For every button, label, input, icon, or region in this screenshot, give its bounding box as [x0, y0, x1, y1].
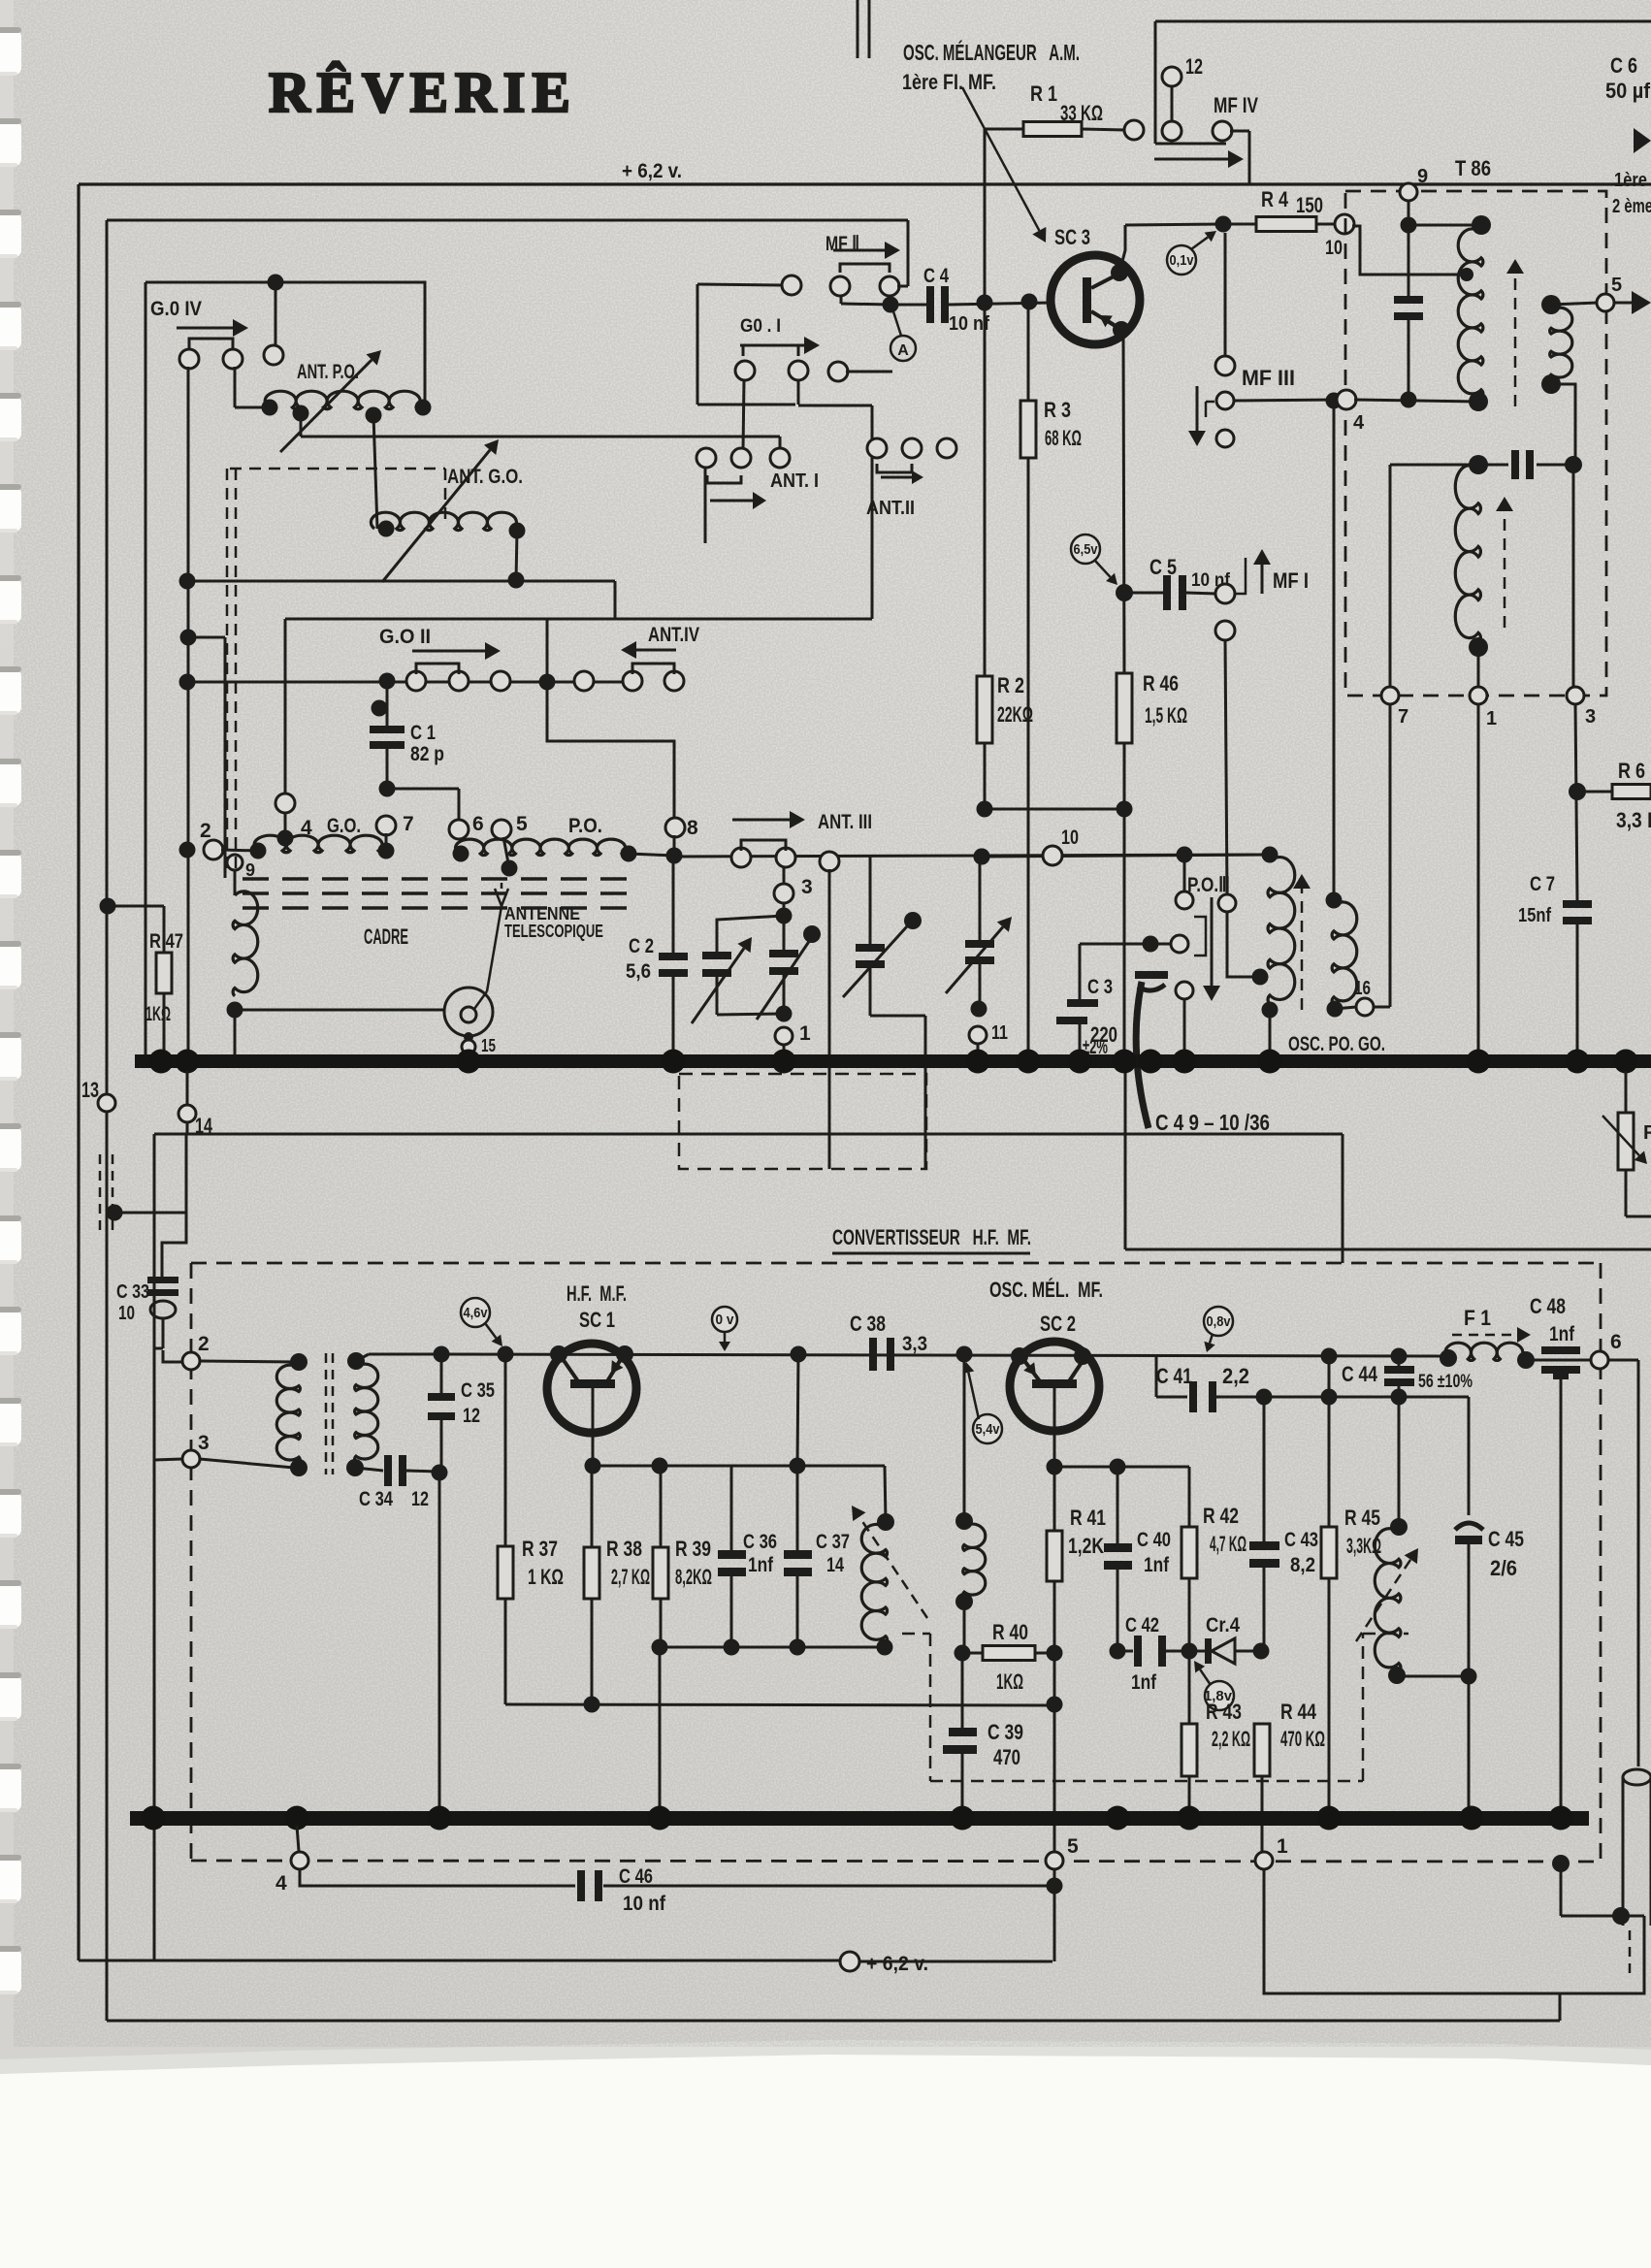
svg-text:7: 7	[403, 813, 414, 835]
wire bottom inner frame	[107, 2020, 1560, 2023]
svg-text:C 4: C 4	[923, 265, 949, 287]
svg-text:R 38: R 38	[606, 1537, 642, 1561]
bracket y883	[741, 840, 786, 851]
dashed gang box below bus	[679, 1074, 926, 1169]
node 6	[1591, 1351, 1608, 1369]
arrow MF III down	[1196, 386, 1199, 431]
svg-text:5: 5	[1067, 1835, 1079, 1858]
arrow ANT IV	[636, 649, 676, 652]
svg-text:R 44: R 44	[1280, 1700, 1317, 1724]
svg-text:C 5: C 5	[1149, 555, 1177, 579]
switch MF IV	[1213, 121, 1232, 141]
capacitor C39	[961, 1653, 964, 1728]
variable capacitor CV2	[783, 916, 786, 950]
svg-text:3,3: 3,3	[902, 1333, 927, 1355]
wire C49 output	[1124, 1071, 1127, 1249]
node +6,2v bottom	[840, 1952, 859, 1971]
svg-text:R 4: R 4	[1261, 187, 1289, 211]
coil OSC PO	[1262, 847, 1279, 863]
svg-text:A: A	[897, 342, 909, 359]
svg-text:TELESCOPIQUE: TELESCOPIQUE	[504, 922, 603, 941]
svg-text:1 KΩ: 1 KΩ	[528, 1565, 564, 1589]
svg-text:1: 1	[799, 1022, 811, 1045]
node pin1 T86	[1470, 687, 1487, 704]
wire SC2 emitter row	[1047, 1459, 1063, 1475]
svg-text:C 41: C 41	[1156, 1364, 1192, 1388]
resistor R6	[1569, 783, 1586, 800]
resistor R42	[1182, 1527, 1197, 1578]
coil F1	[1440, 1349, 1457, 1367]
wire pin3 column	[1572, 465, 1575, 687]
node 9 T86	[1400, 183, 1417, 201]
wire to pin6	[387, 788, 459, 791]
svg-text:RÊVERIE: RÊVERIE	[269, 60, 577, 124]
wire osc coil riser	[1333, 401, 1336, 900]
coil SC1 tank	[877, 1513, 894, 1531]
capacitor C1	[372, 700, 388, 717]
svg-text:6: 6	[1610, 1331, 1622, 1353]
node pin3 T86	[1567, 687, 1584, 704]
node pin6	[449, 820, 469, 839]
dashed arrow osc	[1301, 889, 1304, 1010]
switch ANT IV contacts	[623, 671, 642, 691]
svg-text:2/6: 2/6	[1490, 1556, 1517, 1580]
wire secondary to C	[1551, 384, 1575, 465]
svg-text:ANT. P.O.: ANT. P.O.	[297, 361, 359, 383]
node 11	[969, 1026, 987, 1044]
capacitor C34	[355, 1468, 383, 1471]
wire tap1 drop	[300, 413, 303, 437]
resistor R47	[100, 898, 116, 915]
wire MF III to T86 pin4	[1234, 400, 1339, 401]
node 15	[464, 1032, 473, 1042]
node SC3 emitter	[1113, 321, 1130, 339]
svg-text:3: 3	[1585, 706, 1596, 728]
wire jog to pin8	[547, 682, 674, 820]
coil P.O. cadre	[455, 839, 629, 855]
svg-text:C 38: C 38	[850, 1312, 886, 1336]
switch GO IV bracket	[189, 339, 233, 349]
resistor R40	[955, 1645, 971, 1662]
svg-text:C 36: C 36	[743, 1531, 777, 1553]
node osc tap	[1252, 969, 1269, 986]
variable capacitor CV1	[717, 916, 784, 952]
node ANT.PO taps	[293, 405, 309, 422]
wire pin1 bottom loop	[1264, 1869, 1644, 1993]
resistor R2	[984, 303, 987, 676]
node C1 junction	[379, 673, 396, 690]
svg-text:1nf: 1nf	[748, 1554, 774, 1576]
wire pin1 to bus	[1477, 703, 1480, 1057]
wire left riser x159	[153, 1134, 156, 1960]
switch MF I	[1215, 584, 1235, 603]
bracket ANT II	[877, 464, 912, 472]
wire inner frame	[107, 219, 908, 222]
arrow MF IV	[1154, 158, 1228, 161]
svg-text:SC 2: SC 2	[1040, 1312, 1076, 1336]
coil T86 secondary	[1541, 295, 1561, 314]
svg-text:14: 14	[195, 1114, 213, 1138]
svg-text:R 2: R 2	[997, 673, 1024, 697]
switch GO IV contacts	[179, 349, 199, 369]
svg-text:R 41: R 41	[1070, 1506, 1106, 1530]
svg-text:0,1v: 0,1v	[1170, 252, 1195, 269]
transistor SC3	[1051, 255, 1140, 344]
svg-text:R: R	[1643, 1122, 1651, 1144]
wire PO to pin8 node	[629, 854, 674, 856]
svg-text:C 34: C 34	[359, 1488, 393, 1510]
switch ANT II contacts	[867, 438, 887, 458]
wire GO IV contact to coil	[234, 367, 237, 407]
node pin4 bottom	[297, 1826, 299, 1851]
svg-text:ANT.IV: ANT.IV	[648, 624, 699, 646]
inner dashed box osc	[929, 1634, 932, 1781]
resistor R44	[1254, 1724, 1270, 1776]
coil OSC GO	[1326, 892, 1343, 909]
switch GO II bracket	[416, 664, 459, 674]
svg-text:6,5v: 6,5v	[1074, 541, 1099, 558]
svg-text:10: 10	[1325, 237, 1343, 259]
wire y638	[285, 618, 872, 621]
transformer input primary	[290, 1353, 308, 1371]
svg-text:C 40: C 40	[1137, 1529, 1171, 1551]
electrolytic cylinder	[1623, 1777, 1651, 1926]
switch MF III	[1216, 392, 1234, 409]
arrow MF I up	[1261, 565, 1264, 594]
dashed cadre core	[243, 877, 640, 880]
svg-text:C 44: C 44	[1342, 1362, 1378, 1386]
wire x232 drop	[224, 637, 227, 878]
svg-text:470: 470	[993, 1745, 1020, 1769]
svg-text:G0 . I: G0 . I	[740, 316, 781, 337]
svg-text:OSC. PO. GO.: OSC. PO. GO.	[1288, 1033, 1385, 1055]
ground bus 2	[130, 1811, 1589, 1826]
dashed arrow tank	[859, 1517, 927, 1618]
svg-text:R 37: R 37	[522, 1537, 558, 1561]
arrow GO II	[412, 650, 485, 653]
svg-text:82 p: 82 p	[410, 743, 444, 765]
svg-text:MF III: MF III	[1242, 366, 1295, 390]
svg-text:12: 12	[411, 1488, 429, 1510]
svg-text:ANT. I: ANT. I	[770, 470, 819, 492]
wire +6.2v top rail	[79, 182, 1651, 185]
svg-text:2,2 KΩ: 2,2 KΩ	[1212, 1727, 1250, 1751]
wire R37 R38 bottom	[505, 1704, 1052, 1705]
coil T86 third	[1455, 466, 1480, 643]
svg-text:C 1: C 1	[410, 722, 436, 744]
node 12	[1162, 67, 1182, 86]
switch MF II	[840, 264, 890, 273]
node R4 left	[1215, 216, 1232, 233]
wire C37 feed from A	[791, 1346, 807, 1363]
svg-text:+ 6,2 v.: + 6,2 v.	[622, 160, 682, 182]
node pin3 gang	[774, 884, 793, 903]
svg-text:4,7 KΩ: 4,7 KΩ	[1210, 1532, 1246, 1556]
wire pin4 row	[1337, 390, 1356, 409]
svg-text:8,2KΩ: 8,2KΩ	[675, 1565, 712, 1589]
wire SC3 to R4 node	[1119, 225, 1125, 273]
node pin7	[1381, 687, 1399, 704]
svg-text:+ 6,2 v.: + 6,2 v.	[866, 1953, 928, 1975]
svg-text:1nf: 1nf	[1131, 1671, 1157, 1694]
potentiometer right	[1625, 1071, 1628, 1113]
svg-text:R 39: R 39	[675, 1537, 711, 1561]
svg-text:C 4 9 – 10 /36: C 4 9 – 10 /36	[1155, 1110, 1270, 1135]
node pin2 conv	[163, 1350, 182, 1362]
svg-text:CONVERTISSEUR H.F. MF.: CONVERTISSEUR H.F. MF.	[832, 1225, 1031, 1249]
coil ANT.PO	[265, 391, 424, 409]
svg-text:1ère: 1ère	[1614, 170, 1647, 191]
switch contacts y883	[731, 848, 751, 867]
svg-text:10: 10	[1061, 826, 1079, 849]
svg-text:0,8v: 0,8v	[1207, 1313, 1232, 1330]
svg-text:MF Ⅱ: MF Ⅱ	[825, 233, 859, 255]
svg-text:5,6: 5,6	[626, 960, 651, 983]
wire GO IV column	[187, 367, 190, 1057]
dashed box convertisseur	[191, 1262, 1601, 1265]
bracket ANT I	[707, 475, 741, 483]
svg-text:3,3 K: 3,3 K	[1616, 808, 1651, 832]
svg-text:6: 6	[472, 813, 484, 835]
node A	[890, 336, 916, 361]
variable capacitor CV4	[974, 849, 990, 865]
svg-text:2: 2	[198, 1333, 210, 1355]
svg-text:2,7 KΩ: 2,7 KΩ	[611, 1565, 650, 1589]
svg-text:470 KΩ: 470 KΩ	[1280, 1727, 1325, 1751]
wire tap link y450	[301, 436, 780, 438]
wire SC3 emitter column	[1123, 330, 1124, 673]
capacitor C43	[1263, 1397, 1266, 1541]
svg-text:1,5 KΩ: 1,5 KΩ	[1145, 703, 1187, 728]
svg-text:C 3: C 3	[1087, 976, 1113, 998]
svg-text:R 1: R 1	[1030, 81, 1057, 106]
wire SC1 emitter row	[585, 1458, 601, 1474]
svg-text:8: 8	[687, 817, 698, 839]
node C34-C35	[432, 1465, 448, 1481]
node SC2 base feed	[956, 1346, 973, 1363]
wire R1 column	[984, 129, 987, 303]
svg-text:C 45: C 45	[1488, 1527, 1524, 1551]
coil cadre link	[233, 891, 258, 996]
resistor R46	[1117, 673, 1132, 743]
svg-text:150: 150	[1296, 193, 1323, 217]
dashed arrow third	[1504, 511, 1506, 628]
arrow through ANT.GO	[382, 450, 490, 582]
svg-text:10: 10	[118, 1303, 135, 1324]
wire drop to pin4 node	[284, 619, 287, 794]
label 5,4v	[973, 1414, 1002, 1443]
capacitor C35	[440, 1354, 443, 1393]
svg-text:22KΩ: 22KΩ	[997, 702, 1033, 727]
wire page-cut stubs	[857, 0, 859, 58]
switch GO II contacts	[406, 671, 426, 691]
svg-text:SC 1: SC 1	[579, 1308, 615, 1332]
svg-text:1: 1	[1277, 1835, 1288, 1858]
switch ANT IV bracket	[632, 664, 674, 674]
svg-text:68 KΩ: 68 KΩ	[1045, 426, 1082, 450]
wire to pin7	[1390, 464, 1478, 467]
svg-text:5,4v: 5,4v	[976, 1421, 1001, 1438]
coil G.O. cadre	[254, 835, 386, 853]
arrow PO III down	[1211, 897, 1214, 986]
node 14	[186, 1071, 189, 1105]
switch PO III	[1183, 855, 1186, 891]
svg-text:9: 9	[1417, 166, 1428, 187]
node A-row	[434, 1346, 450, 1363]
capacitor C38	[869, 1338, 877, 1371]
node pin8	[665, 818, 685, 837]
capacitor C7	[1575, 703, 1577, 900]
wire left outer frame	[77, 184, 80, 1960]
svg-text:1KΩ: 1KΩ	[146, 1003, 171, 1025]
svg-text:R 47: R 47	[149, 930, 183, 953]
node pin5 bottom	[1046, 1852, 1063, 1869]
wire top-right feed	[1155, 20, 1651, 23]
svg-text:56 ±10%: 56 ±10%	[1418, 1372, 1473, 1392]
label 6,5v	[1071, 535, 1100, 564]
svg-text:13: 13	[81, 1078, 99, 1102]
svg-text:P.O.Ⅲ: P.O.Ⅲ	[1187, 874, 1230, 896]
node pin2	[179, 842, 196, 859]
node pin1 bottom	[1255, 1852, 1273, 1869]
svg-text:1nf: 1nf	[1144, 1554, 1170, 1576]
resistor R3	[1027, 302, 1030, 401]
svg-text:3: 3	[198, 1432, 210, 1454]
svg-text:1nf: 1nf	[1549, 1323, 1575, 1345]
coil F tank	[1398, 1397, 1401, 1527]
resistor R4	[1223, 223, 1256, 226]
coil ANT.GO	[371, 512, 520, 530]
svg-text:CADRE: CADRE	[364, 924, 408, 949]
svg-text:SC 3: SC 3	[1054, 225, 1090, 249]
capacitor C49 trimmer	[1135, 971, 1168, 979]
capacitor C4	[890, 304, 926, 307]
svg-text:1,2K: 1,2K	[1068, 1534, 1104, 1558]
resistor R38	[591, 1466, 594, 1547]
transformer core dashed	[325, 1353, 328, 1474]
svg-text:C 39: C 39	[987, 1720, 1023, 1744]
dashed box T86	[1345, 191, 1606, 696]
wire y883	[674, 855, 1270, 857]
node coil bottom	[227, 1002, 243, 1019]
wire C48 ground	[1560, 1374, 1563, 1811]
wire y599	[187, 580, 615, 583]
node C5 left	[1116, 584, 1133, 601]
node corner terminal	[782, 275, 801, 295]
capacitor C45	[1468, 1397, 1471, 1515]
variable capacitor CV3	[869, 857, 872, 944]
arrow GO IV	[177, 327, 233, 330]
svg-text:11: 11	[991, 1022, 1008, 1044]
svg-text:15: 15	[481, 1036, 496, 1055]
resistor R43	[1188, 1651, 1191, 1724]
wire box to ANTII riser	[798, 405, 872, 407]
wire y703 switch row	[187, 681, 632, 684]
wire ANT.PO box	[146, 282, 425, 407]
capacitor C3	[1067, 999, 1098, 1007]
svg-text:MF IV: MF IV	[1214, 93, 1258, 117]
node C1 bottom	[379, 781, 396, 797]
node right link	[1552, 1855, 1570, 1872]
transformer input secondary	[347, 1352, 365, 1370]
svg-text:R 46: R 46	[1143, 671, 1179, 696]
wire pin14 column	[185, 1134, 188, 1213]
svg-text:P.O.: P.O.	[568, 815, 602, 837]
switch GO.I box	[696, 284, 699, 405]
svg-text:C 7: C 7	[1530, 873, 1555, 895]
node y703 left	[179, 674, 196, 691]
capacitor C5	[1124, 592, 1163, 595]
wire ANT.GO to y599	[516, 531, 517, 580]
svg-text:C 2: C 2	[629, 935, 654, 957]
node pin1 gang	[775, 1027, 793, 1045]
node box top	[268, 275, 284, 291]
svg-text:C 43: C 43	[1284, 1529, 1318, 1551]
wire bottom outer frame	[79, 1960, 840, 1962]
capacitor C46	[300, 1869, 575, 1886]
capacitor C40	[1104, 1543, 1132, 1552]
svg-text:C 42: C 42	[1125, 1614, 1159, 1636]
svg-text:ANT. G.O.: ANT. G.O.	[447, 466, 523, 488]
svg-text:ANTENNE: ANTENNE	[504, 904, 580, 923]
capacitor C36	[730, 1466, 733, 1550]
node pin3 conv	[182, 1450, 200, 1468]
wire node10 row	[974, 849, 990, 865]
svg-text:R 3: R 3	[1044, 398, 1071, 422]
svg-text:OSC. MÉLANGEUR A.M.: OSC. MÉLANGEUR A.M.	[903, 39, 1080, 65]
svg-text:G.O.: G.O.	[327, 815, 361, 837]
svg-text:R 40: R 40	[992, 1620, 1028, 1644]
wire R2 to emitter column	[977, 801, 993, 818]
svg-text:1: 1	[1486, 708, 1497, 729]
dashed arrow F tank	[1356, 1560, 1410, 1641]
capacitor C48	[1526, 1359, 1600, 1362]
svg-text:2 ème: 2 ème	[1612, 196, 1651, 217]
svg-text:2: 2	[200, 820, 211, 842]
svg-text:5: 5	[1611, 275, 1622, 296]
svg-text:1ère FI. MF.: 1ère FI. MF.	[902, 70, 996, 94]
svg-text:7: 7	[1398, 706, 1408, 728]
dashed cadre box left	[226, 469, 229, 873]
svg-text:4: 4	[275, 1872, 287, 1895]
node pin4	[275, 794, 295, 813]
wire bottom rail SC1 cell	[660, 1646, 885, 1649]
svg-text:50 µf: 50 µf	[1605, 79, 1651, 103]
wire MF I column down	[1225, 639, 1227, 894]
capacitor T86	[1408, 225, 1410, 296]
svg-text:T 86: T 86	[1455, 156, 1491, 180]
node 13	[98, 1094, 115, 1112]
svg-text:3: 3	[801, 876, 813, 898]
svg-text:C 48: C 48	[1530, 1294, 1566, 1318]
pointer to SC3	[962, 87, 1039, 231]
svg-text:F 1: F 1	[1464, 1306, 1491, 1330]
wire ANT.II riser	[871, 405, 874, 619]
svg-text:12: 12	[463, 1405, 480, 1427]
node 16	[1335, 1007, 1356, 1009]
svg-text:G.0 IV: G.0 IV	[150, 298, 202, 320]
capacitor C44	[1391, 1348, 1408, 1365]
svg-text:G.O II: G.O II	[379, 626, 431, 648]
svg-text:R 43: R 43	[1206, 1700, 1242, 1724]
svg-text:Cr.4: Cr.4	[1206, 1614, 1240, 1636]
node SC3 collector	[1111, 264, 1128, 281]
svg-text:OSC. MÉL. MF.: OSC. MÉL. MF.	[989, 1278, 1103, 1302]
wire antenna feed	[235, 1009, 444, 1012]
capacitor C37	[784, 1550, 812, 1559]
wire T86 tap	[1460, 268, 1473, 281]
wire pin7 column	[1389, 703, 1392, 1007]
